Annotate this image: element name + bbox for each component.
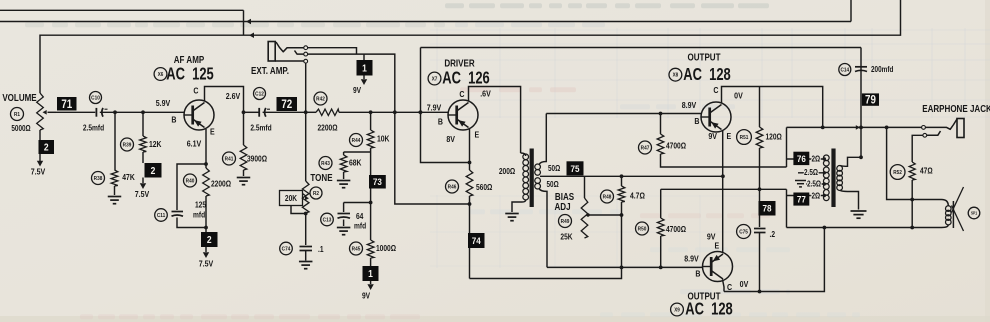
svg-text:50Ω: 50Ω: [548, 164, 560, 173]
svg-text:73: 73: [373, 177, 382, 188]
svg-text:2Ω: 2Ω: [812, 155, 821, 164]
svg-text:25K: 25K: [560, 232, 573, 242]
svg-text:C14: C14: [840, 67, 849, 74]
svg-text:R50: R50: [638, 226, 647, 233]
svg-text:6.1V: 6.1V: [187, 139, 202, 149]
svg-text:C: C: [727, 282, 732, 292]
svg-text:68K: 68K: [349, 158, 362, 168]
svg-text:C: C: [713, 85, 718, 95]
svg-text:9V: 9V: [353, 85, 361, 95]
svg-text:R39: R39: [123, 142, 132, 149]
svg-text:8.9V: 8.9V: [682, 100, 697, 110]
svg-text:R52: R52: [893, 170, 902, 177]
svg-text:R48: R48: [603, 194, 612, 201]
svg-text:R2: R2: [313, 191, 319, 198]
svg-text:C75: C75: [739, 229, 748, 236]
svg-text:B: B: [438, 117, 443, 127]
svg-text:mfd: mfd: [354, 221, 367, 231]
svg-text:.1: .1: [318, 244, 324, 254]
svg-text:SP1: SP1: [971, 211, 977, 215]
svg-text:2.5Ω: 2.5Ω: [807, 180, 821, 189]
svg-text:2.6V: 2.6V: [226, 91, 241, 101]
svg-text:4700Ω: 4700Ω: [666, 141, 686, 151]
svg-text:X9: X9: [674, 307, 680, 314]
svg-text:200Ω: 200Ω: [499, 166, 515, 176]
svg-text:1: 1: [362, 63, 367, 74]
svg-text:2200Ω: 2200Ω: [211, 179, 231, 189]
svg-text:B: B: [171, 115, 176, 125]
svg-text:EXT. AMP.: EXT. AMP.: [251, 65, 289, 76]
svg-text:E: E: [210, 127, 215, 137]
svg-text:C13: C13: [323, 217, 332, 224]
svg-text:7.5V: 7.5V: [135, 189, 150, 199]
svg-text:1: 1: [368, 268, 373, 279]
svg-text:DRIVER: DRIVER: [444, 58, 475, 69]
svg-text:C: C: [459, 89, 464, 99]
svg-text:78: 78: [763, 203, 772, 214]
svg-text:2.5mfd: 2.5mfd: [83, 123, 105, 133]
svg-text:7.5V: 7.5V: [31, 167, 46, 177]
svg-text:TONE: TONE: [310, 172, 332, 183]
svg-text:4.7Ω: 4.7Ω: [630, 191, 645, 201]
svg-text:5000Ω: 5000Ω: [11, 124, 31, 133]
svg-text:7.9V: 7.9V: [427, 103, 442, 113]
svg-text:AF AMP: AF AMP: [174, 54, 205, 65]
svg-text:AC 128: AC 128: [683, 65, 731, 85]
svg-text:64: 64: [356, 211, 364, 221]
svg-text:C10: C10: [91, 95, 100, 102]
svg-text:R46: R46: [448, 184, 457, 191]
svg-text:C12: C12: [255, 91, 264, 98]
svg-text:50Ω: 50Ω: [547, 180, 559, 189]
svg-text:2Ω: 2Ω: [812, 192, 821, 201]
svg-text:4700Ω: 4700Ω: [666, 224, 686, 234]
svg-text:0V: 0V: [740, 279, 749, 289]
svg-text:VOLUME: VOLUME: [2, 92, 36, 103]
svg-text:75: 75: [571, 163, 580, 174]
svg-text:72: 72: [281, 98, 292, 111]
svg-text:47K: 47K: [122, 172, 135, 182]
svg-text:mfd: mfd: [193, 210, 206, 220]
svg-text:B: B: [695, 269, 700, 279]
svg-text:R49: R49: [561, 219, 570, 226]
svg-text:0V: 0V: [734, 91, 743, 101]
svg-text:79: 79: [865, 94, 876, 107]
svg-text:C: C: [193, 86, 198, 96]
svg-text:20K: 20K: [285, 193, 298, 203]
svg-text:EARPHONE JACK: EARPHONE JACK: [922, 103, 990, 114]
svg-text:5.9V: 5.9V: [156, 98, 171, 108]
svg-text:R44: R44: [352, 138, 361, 145]
svg-text:R41: R41: [225, 156, 234, 163]
svg-text:77: 77: [797, 194, 806, 205]
svg-text:C74: C74: [282, 246, 291, 253]
svg-text:1000Ω: 1000Ω: [376, 243, 396, 253]
svg-text:8V: 8V: [446, 134, 455, 144]
svg-text:E: E: [727, 131, 732, 141]
svg-text:E: E: [475, 130, 480, 140]
svg-text:R38: R38: [94, 176, 103, 183]
svg-text:R43: R43: [321, 161, 330, 168]
svg-text:71: 71: [61, 98, 72, 111]
svg-text:47Ω: 47Ω: [920, 166, 933, 176]
svg-text:2.5mfd: 2.5mfd: [250, 123, 272, 133]
svg-text:74: 74: [472, 235, 481, 246]
svg-text:AC 125: AC 125: [166, 65, 214, 85]
svg-text:200mfd: 200mfd: [871, 65, 893, 74]
svg-text:9V: 9V: [708, 131, 717, 141]
svg-text:2: 2: [207, 234, 212, 245]
svg-text:2.5Ω: 2.5Ω: [804, 168, 818, 177]
svg-text:R1: R1: [14, 112, 20, 119]
svg-text:3900Ω: 3900Ω: [247, 154, 267, 164]
svg-text:560Ω: 560Ω: [476, 182, 492, 192]
svg-text:2: 2: [151, 165, 156, 176]
svg-text:OUTPUT: OUTPUT: [687, 52, 720, 63]
svg-text:8.9V: 8.9V: [684, 254, 699, 264]
svg-text:120Ω: 120Ω: [766, 132, 782, 142]
svg-text:R42: R42: [316, 96, 325, 103]
svg-text:7.5V: 7.5V: [199, 259, 214, 269]
svg-text:E: E: [715, 241, 720, 251]
svg-text:12K: 12K: [149, 139, 162, 149]
svg-text:X6: X6: [158, 72, 164, 79]
svg-text:2: 2: [44, 142, 49, 153]
svg-text:X7: X7: [432, 76, 438, 83]
svg-text:ADJ: ADJ: [554, 201, 570, 212]
svg-text:AC 128: AC 128: [685, 300, 733, 320]
svg-text:76: 76: [797, 153, 806, 164]
svg-text:B: B: [694, 116, 699, 126]
svg-text:10K: 10K: [377, 134, 390, 144]
svg-text:AC 126: AC 126: [442, 69, 490, 89]
svg-text:R40: R40: [186, 178, 195, 185]
svg-text:125: 125: [195, 200, 206, 210]
svg-text:2200Ω: 2200Ω: [317, 123, 337, 133]
svg-text:R51: R51: [740, 135, 749, 142]
svg-text:.6V: .6V: [480, 89, 491, 99]
svg-text:R47: R47: [641, 145, 650, 152]
svg-text:.2: .2: [770, 229, 776, 239]
svg-text:R45: R45: [352, 246, 361, 253]
svg-text:9V: 9V: [362, 291, 370, 301]
svg-text:X8: X8: [673, 72, 679, 79]
svg-text:C11: C11: [157, 213, 165, 220]
